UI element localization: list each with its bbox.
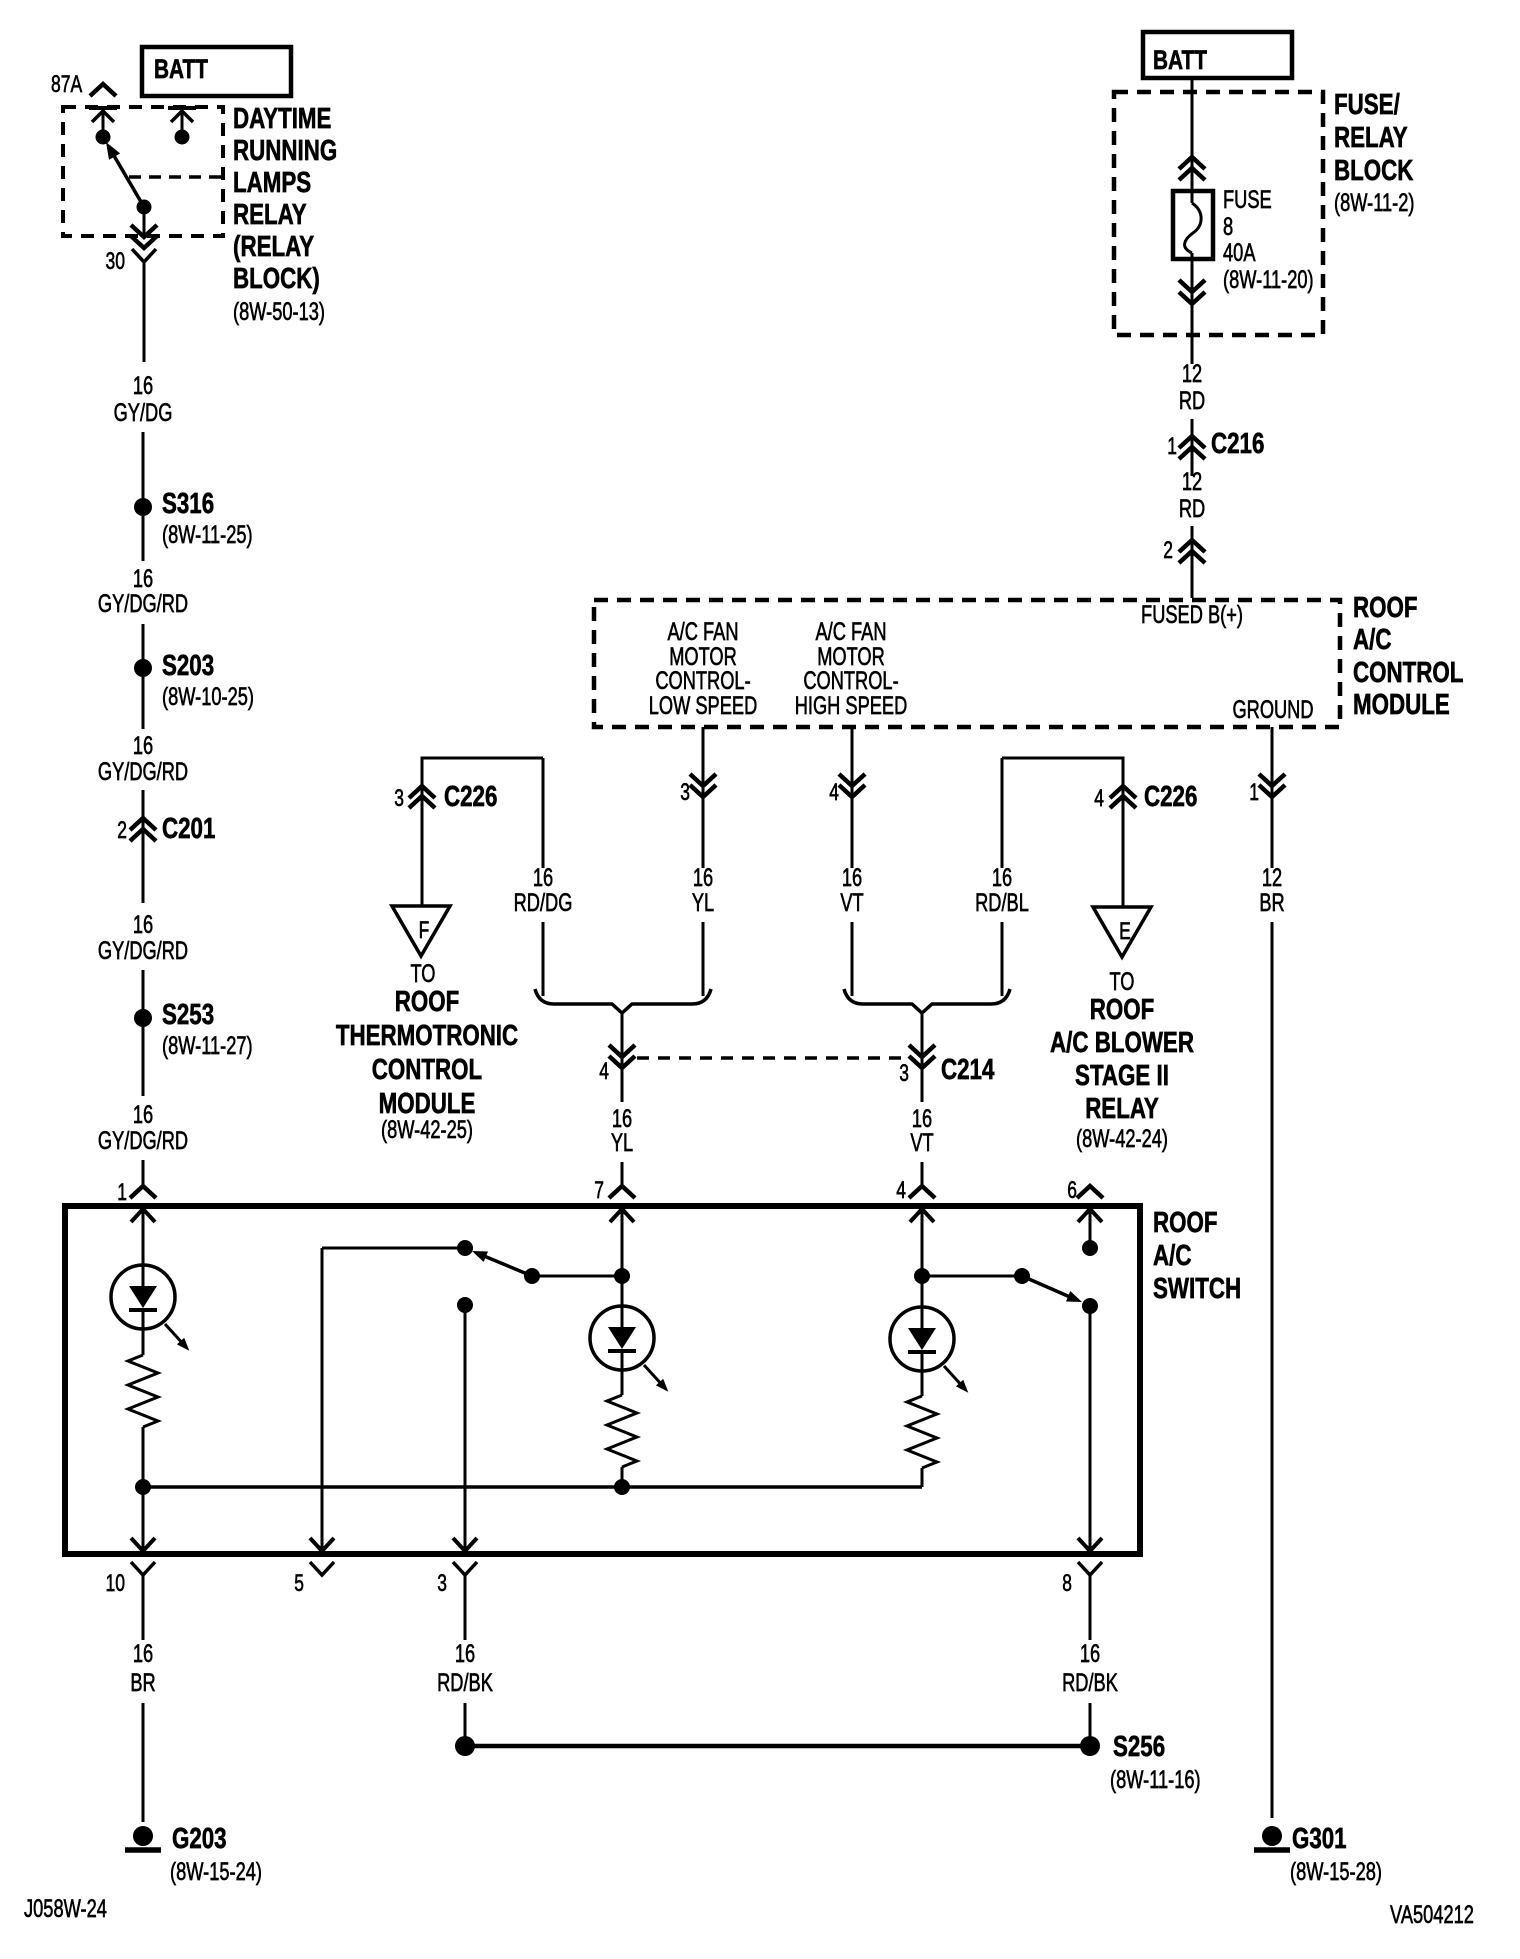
svg-text:F: F <box>419 917 430 944</box>
switch pin 7 connector <box>609 1186 635 1198</box>
svg-text:VA504212: VA504212 <box>1390 1901 1474 1929</box>
svg-text:RELAY: RELAY <box>1334 122 1408 154</box>
svg-text:(8W-11-20): (8W-11-20) <box>1223 266 1314 294</box>
svg-text:GY/DG/RD: GY/DG/RD <box>98 1127 188 1155</box>
switch pin 1 connector <box>130 1186 156 1198</box>
wire jog to connector C226 pin 3 <box>422 758 543 786</box>
relay switch arm (movable contact) <box>113 154 144 207</box>
svg-text:16: 16 <box>133 565 153 593</box>
wire 16 RD/BL <box>1001 758 1004 868</box>
svg-text:GY/DG/RD: GY/DG/RD <box>98 590 188 618</box>
svg-text:BLOCK: BLOCK <box>1334 155 1413 187</box>
svg-text:6: 6 <box>1067 1177 1077 1204</box>
pin 1 entry arrow + wire <box>131 1209 155 1222</box>
wire 16 RD/BK (left) <box>464 1575 467 1640</box>
pin 3 connector + label <box>453 1562 477 1575</box>
relay internal divider (dashed) <box>129 175 221 179</box>
svg-text:C201: C201 <box>162 813 215 845</box>
svg-text:CONTROL-: CONTROL- <box>803 667 898 695</box>
battery feed box BATT (left) <box>142 47 291 96</box>
splice S256 <box>1080 1736 1100 1756</box>
svg-text:10: 10 <box>106 1570 126 1597</box>
svg-text:YL: YL <box>611 1129 633 1157</box>
switch2 arm with arrow <box>1022 1276 1070 1297</box>
switch1 fixed contact wire (pin 5) <box>322 1247 465 1250</box>
connector C226 pin 4 <box>1122 786 1125 907</box>
svg-text:40A: 40A <box>1223 239 1256 267</box>
svg-text:16: 16 <box>133 372 153 400</box>
module pin 4 exit + wire 16 VT <box>851 727 854 868</box>
svg-text:BLOCK): BLOCK) <box>233 263 320 295</box>
connector C214 pin 4 <box>621 1014 624 1102</box>
wire 16 RD/BK (right) <box>1089 1575 1092 1640</box>
resistor R3 <box>921 1352 924 1396</box>
LED D2 <box>590 1306 654 1370</box>
svg-text:S203: S203 <box>162 650 214 682</box>
svg-text:RELAY: RELAY <box>233 199 307 231</box>
switch2 link from pin4 wire <box>922 1275 1022 1278</box>
wire 16 GY/DG <box>143 262 146 362</box>
splice junction dot (left) <box>455 1736 475 1756</box>
svg-text:RUNNING: RUNNING <box>233 135 337 167</box>
svg-text:16: 16 <box>133 1640 153 1668</box>
svg-text:LAMPS: LAMPS <box>233 167 311 199</box>
svg-text:G301: G301 <box>1292 1823 1347 1855</box>
connector C201 pin 2 <box>142 790 145 903</box>
svg-text:BR: BR <box>130 1669 155 1697</box>
svg-text:87A: 87A <box>51 71 82 98</box>
switch1 upper contact dot <box>457 1240 473 1256</box>
pin 6 contact dot <box>1082 1240 1098 1256</box>
svg-text:E: E <box>1119 918 1131 945</box>
switch1 arm link to pin7 wire <box>532 1275 622 1278</box>
svg-text:16: 16 <box>842 864 862 892</box>
svg-text:A/C: A/C <box>1353 624 1392 656</box>
fuse/relay block box (dashed) <box>1114 92 1323 335</box>
svg-text:4: 4 <box>1094 785 1104 812</box>
ground G301 <box>1262 1826 1282 1846</box>
svg-text:1: 1 <box>1249 779 1259 806</box>
svg-text:HIGH SPEED: HIGH SPEED <box>795 692 908 720</box>
relay pin 30 wire + exit arrows <box>143 207 146 236</box>
svg-text:LOW SPEED: LOW SPEED <box>649 692 758 720</box>
svg-text:16: 16 <box>693 864 713 892</box>
pin 10 exit arrow <box>131 1538 155 1551</box>
svg-text:4: 4 <box>829 779 839 806</box>
svg-text:4: 4 <box>896 1177 906 1204</box>
wire 16 RD/DG <box>542 758 545 868</box>
LED D2 emission arrow <box>644 1365 664 1387</box>
svg-text:FUSE/: FUSE/ <box>1334 89 1400 121</box>
svg-text:J058W-24: J058W-24 <box>24 1895 107 1923</box>
svg-text:(RELAY: (RELAY <box>233 231 314 263</box>
svg-text:(8W-11-16): (8W-11-16) <box>1110 1766 1201 1794</box>
bus merge (RD/DG + YL) <box>542 922 545 996</box>
svg-text:16: 16 <box>533 864 553 892</box>
svg-text:8: 8 <box>1223 213 1233 241</box>
wire jog to connector C226 pin 4 <box>1002 758 1123 786</box>
svg-text:3: 3 <box>899 1060 909 1087</box>
switch1 arm with arrow <box>484 1256 532 1276</box>
svg-text:3: 3 <box>437 1570 447 1597</box>
svg-text:(8W-50-13): (8W-50-13) <box>233 298 325 326</box>
svg-text:2: 2 <box>1163 537 1173 564</box>
svg-text:TO: TO <box>411 960 436 988</box>
svg-text:DAYTIME: DAYTIME <box>233 103 331 135</box>
svg-text:(8W-15-24): (8W-15-24) <box>170 1858 262 1886</box>
wire 16 GY/DG/RD (1) <box>142 516 145 561</box>
svg-text:2: 2 <box>117 817 127 844</box>
svg-text:S316: S316 <box>162 488 214 520</box>
svg-text:(8W-42-24): (8W-42-24) <box>1076 1125 1168 1153</box>
off-page connector E triangle <box>1093 907 1151 957</box>
module pin 3 exit + wire 16 YL <box>702 727 705 868</box>
daytime running lamps relay box (dashed) <box>63 107 223 236</box>
switch pin 4 connector <box>909 1186 935 1198</box>
roof A/C switch box <box>65 1206 1140 1554</box>
svg-text:BR: BR <box>1259 889 1284 917</box>
svg-text:CONTROL-: CONTROL- <box>655 667 750 695</box>
splice S316 <box>134 498 152 516</box>
svg-text:ROOF: ROOF <box>395 986 460 1018</box>
roof A/C control module box (dashed) <box>594 600 1340 727</box>
svg-text:FUSED B(+): FUSED B(+) <box>1141 601 1243 629</box>
svg-text:(8W-42-25): (8W-42-25) <box>381 1116 473 1144</box>
ground G203 <box>133 1826 153 1846</box>
battery feed box BATT (right) <box>1143 32 1292 78</box>
svg-text:(8W-11-27): (8W-11-27) <box>162 1032 253 1060</box>
svg-text:(8W-10-25): (8W-10-25) <box>162 683 254 711</box>
LED D1 emission arrow <box>165 1324 185 1346</box>
svg-text:8: 8 <box>1062 1570 1072 1597</box>
cathode rail wire <box>143 1485 922 1489</box>
switch1 pivot dot <box>524 1268 540 1284</box>
svg-text:C214: C214 <box>941 1054 994 1086</box>
svg-text:16: 16 <box>992 864 1012 892</box>
svg-text:RD/DG: RD/DG <box>514 889 573 917</box>
svg-text:1: 1 <box>117 1179 127 1206</box>
module pin 2 entry <box>1191 526 1194 598</box>
connector C226 pin 3 <box>421 786 424 906</box>
svg-text:RD: RD <box>1179 387 1205 415</box>
svg-text:30: 30 <box>106 248 126 275</box>
svg-text:A/C: A/C <box>1153 1240 1192 1272</box>
wire 16 BR <box>142 1575 145 1640</box>
svg-text:TO: TO <box>1110 968 1135 996</box>
svg-text:A/C FAN: A/C FAN <box>816 618 887 646</box>
svg-text:ROOF: ROOF <box>1090 994 1155 1026</box>
svg-text:STAGE II: STAGE II <box>1075 1060 1169 1092</box>
relay contact dot 87A <box>96 130 111 145</box>
resistor R1 <box>142 1310 145 1355</box>
bus merge (VT + RD/BL) <box>844 989 1010 1013</box>
svg-text:C226: C226 <box>444 781 497 813</box>
module pin 1 ground exit + wire 12 BR <box>1271 727 1274 868</box>
svg-text:12: 12 <box>1182 468 1202 496</box>
svg-text:5: 5 <box>294 1570 304 1597</box>
pin 5 connector + label <box>310 1562 334 1575</box>
wire 16 GY/DG/RD (2) <box>142 677 145 729</box>
svg-text:THERMOTRONIC: THERMOTRONIC <box>336 1020 518 1052</box>
junction dot (pin1 leg to rail) <box>135 1479 151 1495</box>
svg-text:(8W-11-2): (8W-11-2) <box>1334 189 1415 217</box>
svg-text:RELAY: RELAY <box>1085 1093 1159 1125</box>
svg-text:SWITCH: SWITCH <box>1153 1273 1241 1305</box>
connector C216 pin 1 <box>1191 419 1194 476</box>
svg-text:GY/DG/RD: GY/DG/RD <box>98 937 188 965</box>
svg-text:7: 7 <box>594 1177 604 1204</box>
svg-text:4: 4 <box>599 1058 609 1085</box>
svg-text:A/C BLOWER: A/C BLOWER <box>1050 1027 1194 1059</box>
splice link wire to S256 <box>465 1744 1090 1749</box>
svg-text:GY/DG: GY/DG <box>114 399 173 427</box>
switch2 pivot dot <box>1014 1268 1030 1284</box>
relay common dot <box>137 200 152 215</box>
svg-text:S256: S256 <box>1113 1731 1165 1763</box>
svg-text:16: 16 <box>133 911 153 939</box>
LED D3 <box>890 1307 954 1371</box>
svg-text:CONTROL: CONTROL <box>372 1054 482 1086</box>
switch pin 6 connector <box>1077 1186 1103 1198</box>
pin 7 entry arrow + wire <box>610 1209 634 1222</box>
switch2 contact dot on pin8 wire <box>1082 1298 1098 1314</box>
svg-text:1: 1 <box>1167 433 1177 460</box>
svg-text:12: 12 <box>1262 864 1282 892</box>
svg-text:S253: S253 <box>162 999 214 1031</box>
svg-text:BATT: BATT <box>1153 45 1207 75</box>
splice S203 <box>134 659 152 677</box>
svg-text:FUSE: FUSE <box>1223 186 1272 214</box>
pin 6 entry arrow + stub <box>1078 1209 1102 1222</box>
svg-text:3: 3 <box>394 785 404 812</box>
svg-text:RD: RD <box>1179 495 1205 523</box>
pin 4 entry arrow + wire <box>910 1209 934 1222</box>
svg-text:(8W-11-25): (8W-11-25) <box>162 521 253 549</box>
svg-text:16: 16 <box>1080 1640 1100 1668</box>
resistor R2 <box>621 1351 624 1395</box>
fuse block exit arrows + wire <box>1191 253 1194 364</box>
off-page connector F triangle <box>392 906 450 956</box>
pin 10 connector + label <box>131 1562 155 1575</box>
svg-text:G203: G203 <box>172 1823 227 1855</box>
LED D3 emission arrow <box>944 1366 964 1388</box>
svg-text:12: 12 <box>1182 360 1202 388</box>
splice S253 <box>134 1009 152 1027</box>
pin 8 wire inside <box>1089 1306 1092 1551</box>
fuse 8 40A <box>1173 191 1213 259</box>
svg-text:CONTROL: CONTROL <box>1353 657 1463 689</box>
relay terminal 87A (left) <box>89 106 117 110</box>
switch1 lower contact dot + pin 3 wire <box>457 1297 473 1313</box>
svg-text:3: 3 <box>680 779 690 806</box>
relay terminal (right, from BATT) <box>168 106 196 110</box>
relay contact dot (right) <box>175 130 190 145</box>
svg-text:VT: VT <box>840 889 863 917</box>
gang dashes to C214 <box>637 1056 905 1060</box>
svg-text:A/C FAN: A/C FAN <box>668 618 739 646</box>
junction dot (pin7 leg to rail) <box>614 1479 630 1495</box>
svg-text:VT: VT <box>910 1129 933 1157</box>
svg-text:ROOF: ROOF <box>1353 592 1418 624</box>
svg-text:BATT: BATT <box>154 54 208 84</box>
svg-text:GY/DG/RD: GY/DG/RD <box>98 758 188 786</box>
svg-text:C226: C226 <box>1144 781 1197 813</box>
switch1 contact dot on pin7 wire <box>614 1268 630 1284</box>
connector C214 pin 3 <box>921 1014 924 1102</box>
switch2 contact dot on pin4 wire <box>914 1268 930 1284</box>
svg-text:RD/BK: RD/BK <box>437 1669 493 1697</box>
svg-text:16: 16 <box>455 1640 475 1668</box>
connector chevron 87A <box>90 84 116 96</box>
svg-text:RD/BK: RD/BK <box>1062 1669 1118 1697</box>
pin 8 connector + label <box>1078 1562 1102 1575</box>
svg-text:16: 16 <box>133 1101 153 1129</box>
wire 16 GY/DG/RD (4) <box>142 1027 145 1096</box>
svg-text:(8W-15-28): (8W-15-28) <box>1290 1858 1382 1886</box>
pin 30 connector Y <box>132 249 156 262</box>
svg-text:GROUND: GROUND <box>1232 696 1313 724</box>
svg-text:RD/BL: RD/BL <box>975 889 1029 917</box>
svg-text:MODULE: MODULE <box>1353 689 1450 721</box>
svg-text:ROOF: ROOF <box>1153 1207 1218 1239</box>
svg-text:C216: C216 <box>1211 428 1264 460</box>
svg-text:YL: YL <box>692 889 714 917</box>
wire from BATT into fuse block <box>1191 80 1194 203</box>
LED D1 <box>111 1265 175 1329</box>
svg-text:16: 16 <box>133 732 153 760</box>
